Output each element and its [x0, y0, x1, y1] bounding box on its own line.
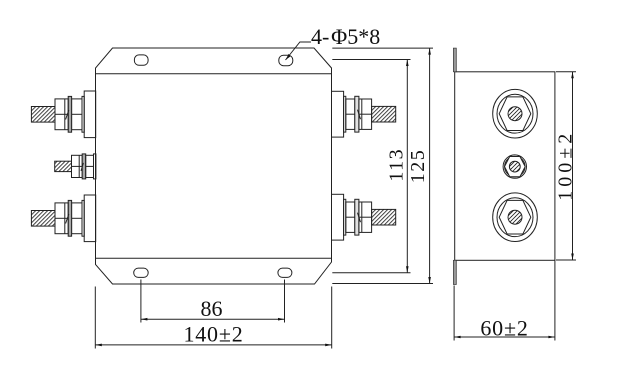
dimension 140±2: dimension line with arrows: [95, 344, 331, 347]
svg-text:4- Φ5*8: 4- Φ5*8: [311, 24, 380, 49]
terminal TL: inner nut: [72, 99, 82, 130]
terminal BR: threaded stud: [372, 209, 396, 225]
side nut middle: hex nut: [505, 157, 526, 177]
dimension 125: dimension line with arrows: [428, 48, 431, 283]
side nut top: washer circle: [493, 89, 538, 138]
terminal TL: threaded stud: [31, 107, 55, 123]
svg-text:140±2: 140±2: [183, 322, 243, 347]
bottom flange fold line: [96, 257, 332, 259]
terminal ML: washer: [94, 154, 96, 179]
svg-text:60±2: 60±2: [480, 315, 528, 340]
svg-text:86: 86: [201, 296, 223, 321]
side nut middle (small): outer circles: [503, 155, 526, 178]
terminal TR: outer nut: [358, 99, 372, 129]
terminal BR: spring washer: [355, 199, 359, 235]
leader line for hole callout: [286, 42, 312, 60]
svg-text:100±2: 100±2: [555, 130, 577, 201]
terminal TR: inner nut: [346, 99, 355, 129]
dimension 60±2: dimension line with arrows: [454, 336, 555, 339]
terminal BL: threaded stud: [31, 211, 55, 227]
dimension 86: dimension line with arrows: [141, 318, 285, 321]
side nut bottom: washer circle: [493, 193, 538, 242]
terminal TR: washer: [344, 96, 346, 132]
terminal BR: inner nut: [346, 202, 355, 232]
dimension 125: extension lines: [332, 48, 433, 283]
terminal BL: washer: [82, 200, 84, 236]
terminal ML: outer nut: [72, 155, 83, 177]
dimension 113: extension lines: [332, 60, 410, 273]
mounting slot top-left: [134, 55, 148, 65]
terminal ML: inner nut: [81, 155, 94, 177]
terminal BL: insulator base: [31, 195, 95, 242]
top flange fold line: [96, 73, 332, 75]
terminal BR: outer nut: [358, 202, 372, 232]
terminal BL: outer nut: [55, 203, 69, 234]
terminal TR: insulator base: [332, 91, 396, 137]
side nut middle: stud end: [509, 161, 520, 172]
terminal BR: washer: [344, 199, 346, 235]
terminal ML (small): threaded stud: [55, 154, 96, 179]
side view body: [455, 72, 555, 260]
dimension 100±2: dimension line with arrows: [571, 72, 574, 260]
side view bottom flange tab: [453, 260, 456, 284]
terminal BR: insulator base: [332, 194, 396, 240]
dimension 86: extension lines: [141, 280, 285, 323]
side nut top: stud end: [508, 107, 522, 121]
dimension 100±2: extension lines: [556, 72, 576, 260]
terminal BL: inner nut: [72, 203, 82, 234]
mounting slot bottom-left: [134, 268, 149, 277]
terminal TL: insulator base: [31, 91, 95, 138]
side nut top: hex nut: [499, 97, 531, 131]
svg-text:113: 113: [386, 148, 408, 182]
svg-text:125: 125: [407, 149, 429, 184]
side view top flange tab: [453, 48, 456, 72]
terminal TR: threaded stud: [372, 106, 396, 122]
dimension 60±2: extension lines: [454, 260, 555, 340]
mounting slot bottom-right: [278, 268, 292, 277]
terminal TL: washer: [82, 96, 84, 132]
side nut bottom: hex nut: [499, 200, 531, 234]
terminal TR: spring washer: [355, 96, 359, 132]
terminal TL: outer nut: [55, 99, 69, 130]
dimension 140±2: extension lines: [95, 287, 331, 349]
plate outline (front view, chamfered corners): [96, 48, 332, 284]
terminal TL: spring washer: [68, 96, 71, 132]
dimension 113: dimension line with arrows: [406, 60, 409, 273]
side nut bottom: stud end: [508, 210, 522, 224]
terminal BL: spring washer: [68, 200, 71, 236]
terminal ML: spring washer: [82, 154, 86, 179]
mounting hole top-right: [279, 55, 293, 65]
